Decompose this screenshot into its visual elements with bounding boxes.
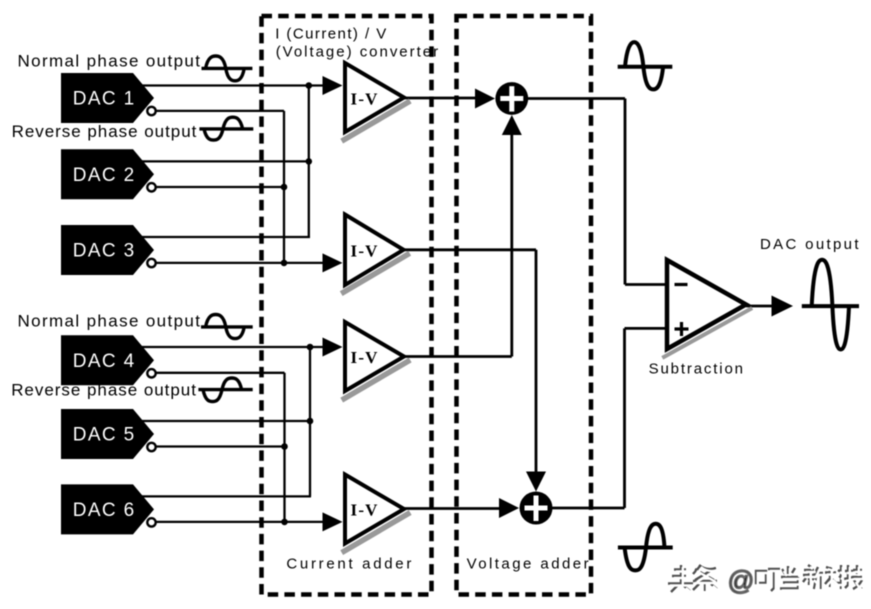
- svg-text:Subtraction: Subtraction: [649, 360, 745, 377]
- svg-text:DAC 1: DAC 1: [73, 89, 136, 110]
- svg-text:Normal phase output: Normal phase output: [18, 312, 202, 331]
- svg-text:DAC 4: DAC 4: [73, 351, 136, 372]
- svg-text:Voltage adder: Voltage adder: [467, 556, 591, 573]
- svg-text:Normal phase output: Normal phase output: [18, 51, 202, 70]
- svg-text:DAC output: DAC output: [760, 236, 861, 253]
- svg-text:I-V: I-V: [351, 348, 379, 367]
- svg-text:Current adder: Current adder: [286, 556, 414, 573]
- svg-text:@: @: [728, 566, 755, 596]
- svg-text:I-V: I-V: [351, 90, 379, 109]
- svg-text:DAC 5: DAC 5: [73, 425, 136, 446]
- svg-text:DAC 3: DAC 3: [73, 241, 136, 262]
- svg-text:I-V: I-V: [351, 241, 379, 260]
- svg-text:I-V: I-V: [351, 501, 379, 520]
- svg-text:I (Current) / V: I (Current) / V: [275, 26, 387, 43]
- svg-text:Reverse phase output: Reverse phase output: [11, 381, 197, 400]
- svg-text:DAC 6: DAC 6: [73, 500, 136, 521]
- svg-text:(Voltage) converter: (Voltage) converter: [276, 43, 440, 60]
- svg-text:DAC 2: DAC 2: [73, 165, 136, 186]
- svg-text:Reverse phase output: Reverse phase output: [12, 122, 198, 141]
